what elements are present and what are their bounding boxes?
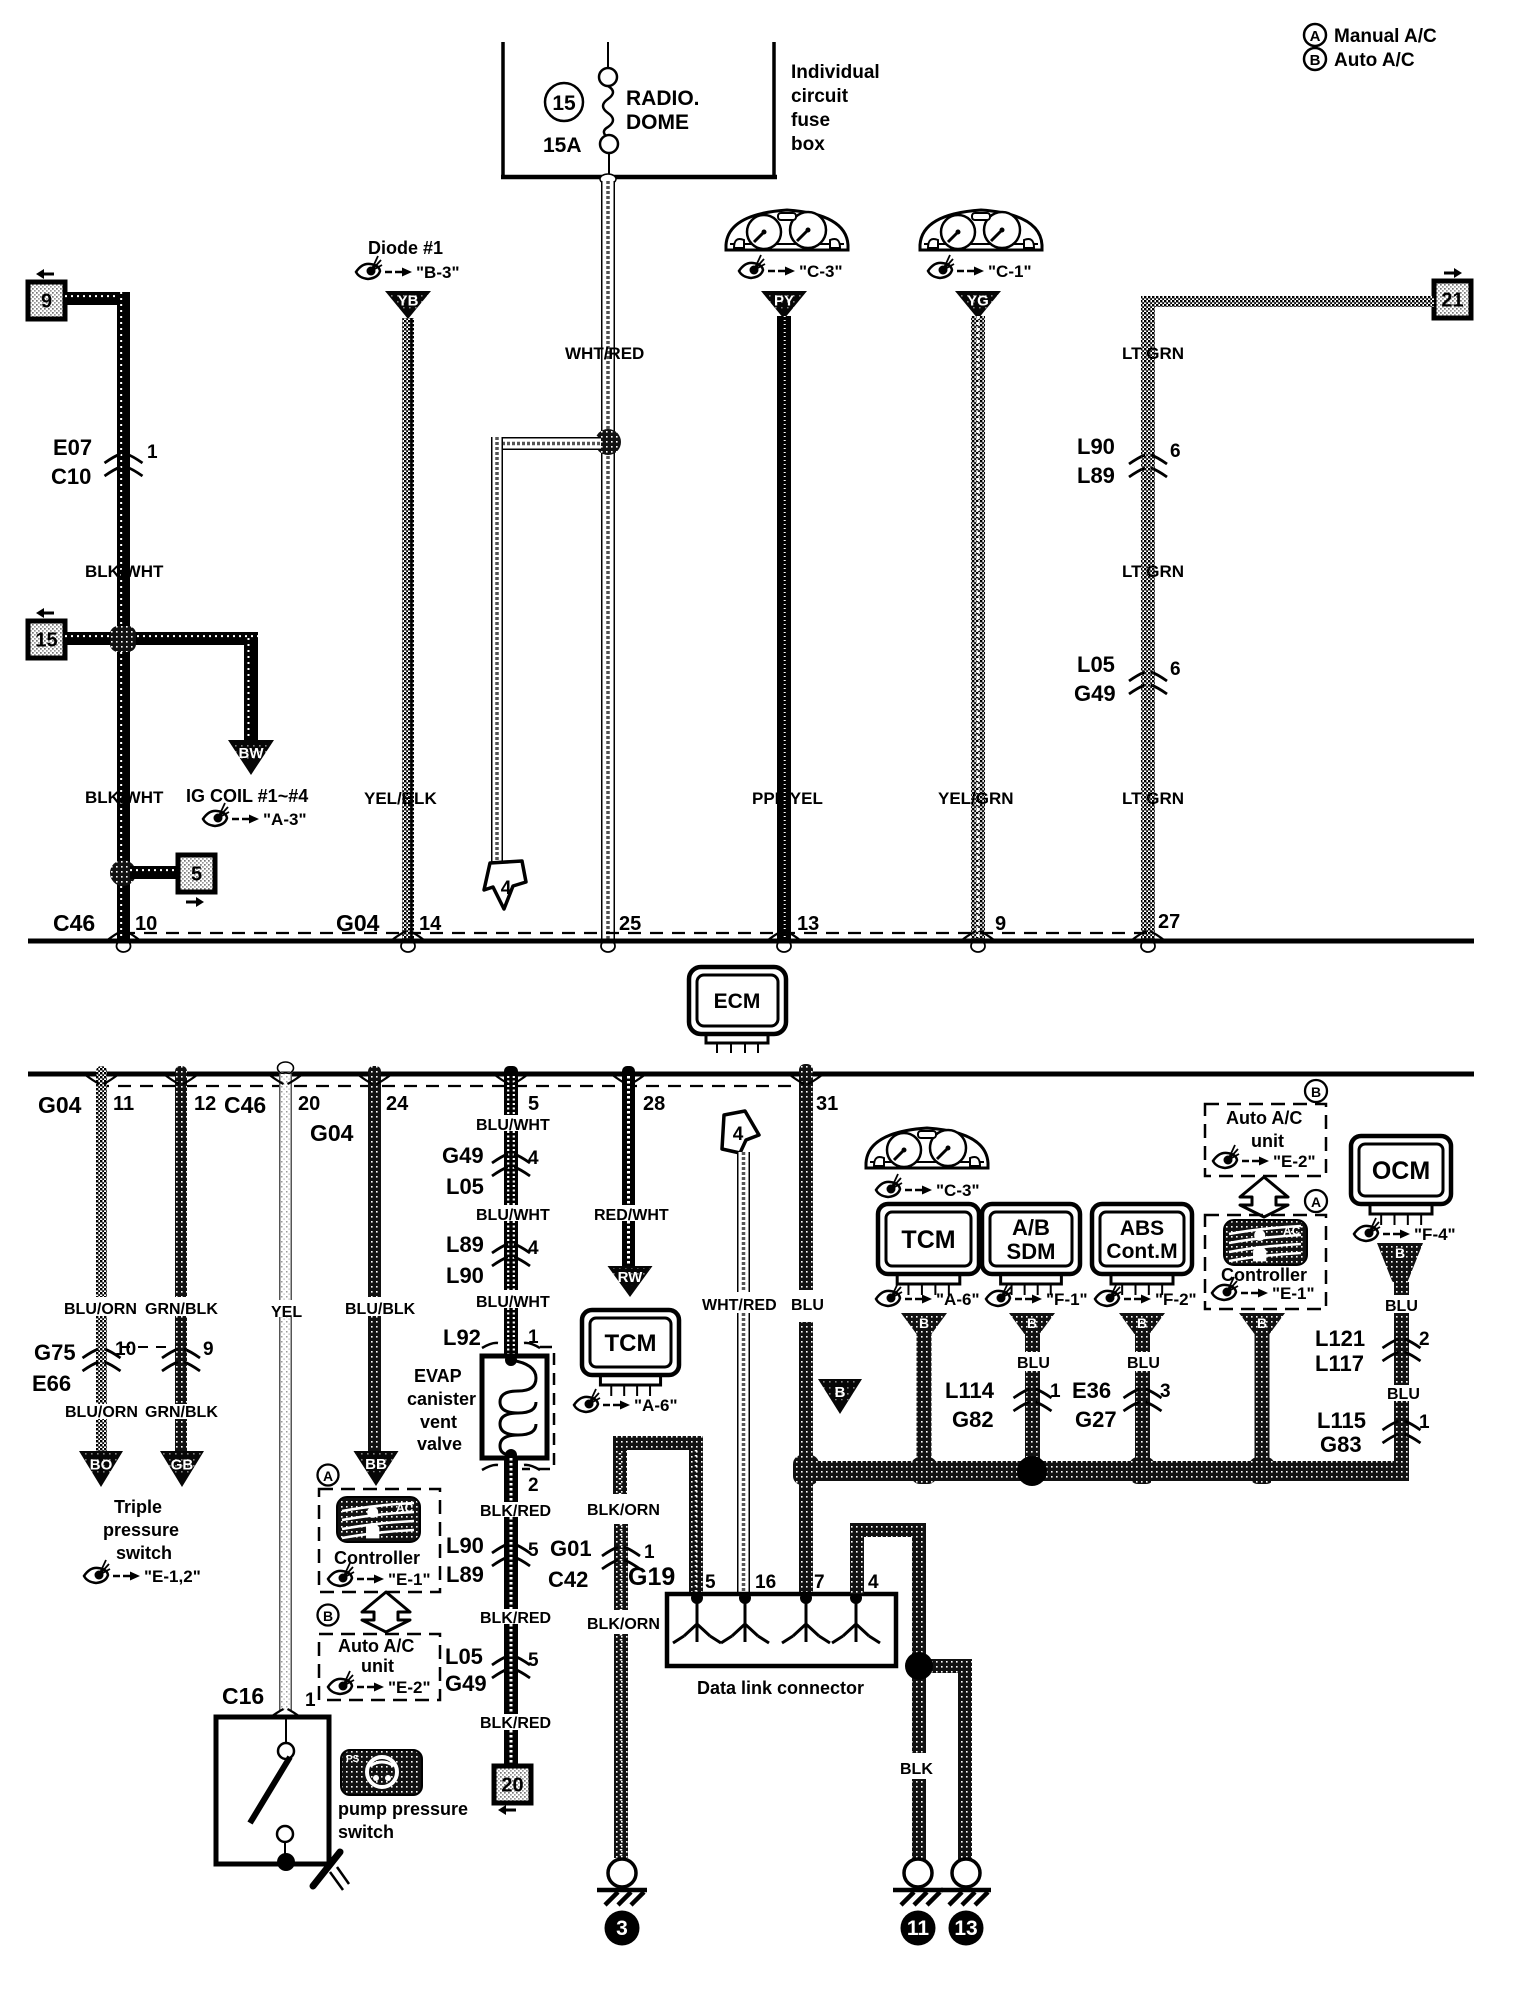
svg-text:L05: L05	[445, 1644, 483, 1669]
svg-text:BLU: BLU	[1387, 1386, 1420, 1403]
svg-text:14: 14	[419, 913, 442, 935]
svg-text:20: 20	[298, 1093, 320, 1115]
svg-text:Diode #1: Diode #1	[368, 238, 443, 258]
svg-text:TCM: TCM	[605, 1330, 657, 1357]
label LT GRN upper	[1122, 344, 1184, 363]
label C-1	[928, 255, 1032, 281]
connector 21	[1434, 268, 1471, 318]
svg-text:IG COIL #1~#4: IG COIL #1~#4	[186, 786, 308, 806]
label BLK/RED 1	[480, 1503, 551, 1520]
svg-text:11: 11	[907, 1917, 930, 1940]
svg-text:G49: G49	[442, 1143, 484, 1168]
svg-text:1: 1	[528, 1327, 539, 1348]
pin 9	[962, 913, 1006, 940]
instrument cluster icon C-3	[725, 210, 849, 250]
splice L05 G49 pin 6	[1074, 652, 1181, 706]
svg-text:BLU: BLU	[1017, 1355, 1050, 1372]
svg-text:2: 2	[1419, 1329, 1430, 1350]
funnel B under ABS	[1119, 1313, 1165, 1334]
svg-text:4: 4	[528, 1238, 539, 1259]
svg-text:BLK/WHT: BLK/WHT	[85, 788, 164, 807]
svg-text:B: B	[1027, 1315, 1037, 1331]
svg-text:WHT/RED: WHT/RED	[565, 344, 644, 363]
svg-text:11: 11	[113, 1093, 134, 1115]
EVAP canister vent valve dashed box	[522, 1347, 554, 1469]
svg-text:unit: unit	[361, 1656, 394, 1676]
svg-text:E36: E36	[1072, 1378, 1111, 1403]
svg-text:G49: G49	[445, 1671, 487, 1696]
svg-text:BLK/RED: BLK/RED	[480, 1610, 551, 1627]
ECM	[689, 967, 786, 1053]
svg-text:B: B	[1257, 1315, 1267, 1331]
label BLK	[900, 1761, 933, 1778]
wire B-net from controller to bus	[1255, 1334, 1270, 1461]
svg-text:1: 1	[1050, 1381, 1061, 1402]
svg-text:"E-1,2": "E-1,2"	[144, 1567, 201, 1586]
splice L115 G83 pin 1	[1317, 1408, 1430, 1457]
svg-text:RW: RW	[618, 1269, 644, 1286]
bus junction dots	[793, 1455, 1275, 1486]
svg-text:BLU/WHT: BLU/WHT	[476, 1117, 550, 1134]
instrument cluster icon C-3 (bottom)	[865, 1128, 989, 1168]
svg-text:6: 6	[1170, 441, 1181, 462]
svg-text:GRN/BLK: GRN/BLK	[145, 1404, 218, 1421]
svg-text:C46: C46	[224, 1092, 266, 1118]
svg-text:"C-3": "C-3"	[799, 262, 843, 281]
svg-text:circuit: circuit	[791, 86, 849, 107]
svg-text:"E-2": "E-2"	[388, 1678, 431, 1697]
svg-text:5: 5	[528, 1093, 539, 1115]
label F-2	[1095, 1283, 1197, 1309]
svg-text:Triple: Triple	[114, 1497, 162, 1517]
label G19	[628, 1563, 675, 1591]
OCM module	[1351, 1136, 1451, 1225]
svg-text:BLK: BLK	[900, 1761, 933, 1778]
svg-text:G83: G83	[1320, 1432, 1362, 1457]
label BLU/WHT 1	[476, 1117, 550, 1134]
svg-text:9: 9	[203, 1339, 214, 1360]
svg-text:L92: L92	[443, 1325, 481, 1350]
label GRN/BLK upper	[145, 1301, 218, 1318]
splice L90 L89 pin 6	[1077, 434, 1181, 488]
arrow RW to TCM	[608, 1266, 653, 1297]
funnel B under TCM	[901, 1313, 947, 1334]
label YEL	[271, 1304, 302, 1321]
svg-text:L05: L05	[446, 1174, 484, 1199]
svg-text:canister: canister	[407, 1389, 476, 1409]
svg-text:B: B	[1311, 1084, 1321, 1100]
svg-text:24: 24	[386, 1093, 409, 1115]
fuse F15 15A RADIO DOME	[543, 42, 700, 177]
splice G49 L05 pin 4	[442, 1143, 539, 1199]
splice G75 E66 pin 10	[32, 1339, 172, 1396]
ECM connector dashed line (bottom)	[96, 1085, 812, 1087]
circled B (top right)	[1305, 1080, 1327, 1102]
A/B alternative double arrow (right)	[1240, 1177, 1288, 1217]
pin 28	[613, 1075, 666, 1115]
A/C controller icon	[337, 1497, 420, 1542]
svg-text:Auto A/C: Auto A/C	[1226, 1108, 1302, 1128]
funnel B under controller	[1239, 1313, 1285, 1334]
label F-4	[1354, 1218, 1456, 1244]
connector 9	[28, 269, 65, 319]
instrument cluster icon C-1	[919, 210, 1043, 250]
splice L05 G49 pin 5 (lower)	[445, 1644, 539, 1696]
wire BLU/ORN ECM pin 11 to triple pressure switch	[96, 1066, 107, 1451]
pin 13	[768, 913, 819, 940]
wire RED/WHT ECM pin 28 to TCM	[622, 1066, 635, 1266]
svg-text:"F-2": "F-2"	[1155, 1290, 1197, 1309]
svg-text:pump pressure: pump pressure	[338, 1799, 468, 1819]
svg-text:27: 27	[1158, 911, 1180, 933]
svg-text:E66: E66	[32, 1371, 71, 1396]
svg-text:4: 4	[528, 1148, 539, 1169]
pin 11 label G04	[38, 1075, 134, 1118]
svg-text:G27: G27	[1075, 1407, 1117, 1432]
route arrow 4 (bottom)	[722, 1111, 759, 1153]
arrow BB	[354, 1451, 399, 1486]
svg-text:L05: L05	[1077, 652, 1115, 677]
label BLU/BLK	[345, 1301, 416, 1318]
svg-text:G75: G75	[34, 1340, 76, 1365]
pin 12	[165, 1075, 216, 1115]
label BLU (OCM lower)	[1387, 1386, 1420, 1403]
label BLU (OCM upper)	[1385, 1298, 1418, 1315]
pin 5	[495, 1075, 539, 1115]
svg-text:switch: switch	[338, 1822, 394, 1842]
svg-text:4: 4	[868, 1572, 879, 1593]
svg-text:L90: L90	[446, 1533, 484, 1558]
route arrow 4 (top)	[484, 861, 526, 909]
svg-text:9: 9	[41, 291, 52, 313]
TCM module (bus B)	[878, 1204, 979, 1295]
svg-text:LT GRN: LT GRN	[1122, 789, 1184, 808]
svg-text:Auto A/C: Auto A/C	[1334, 50, 1415, 71]
svg-text:AC: AC	[396, 1501, 414, 1515]
A/C controller icon (right)	[1224, 1220, 1307, 1265]
label BLU/ORN lower	[65, 1404, 138, 1421]
label BLU (SDM)	[1017, 1355, 1050, 1372]
splice L121 L117 pin 2	[1315, 1326, 1430, 1376]
svg-text:15: 15	[552, 92, 576, 115]
svg-text:5: 5	[191, 864, 202, 886]
pump pressure switch icon	[341, 1750, 422, 1795]
A/B alternative double arrow	[362, 1592, 410, 1632]
svg-text:RADIO.: RADIO.	[626, 87, 700, 110]
svg-text:"E-1": "E-1"	[388, 1570, 431, 1589]
splice at GRN/BLK pin 9	[162, 1339, 214, 1371]
ABS Cont.M module	[1092, 1204, 1192, 1295]
junction to connector 5	[110, 860, 178, 886]
splice L90 L89 pin 5 (lower)	[446, 1533, 539, 1587]
label BLK/ORN upper	[587, 1502, 660, 1519]
label BLU (ABS)	[1127, 1355, 1160, 1372]
wire YEL ECM pin 20 to compressor switch C16	[278, 1062, 294, 1710]
connector 5	[178, 855, 215, 907]
label triple pressure switch E-1,2	[84, 1497, 201, 1586]
svg-text:YG: YG	[967, 293, 989, 310]
svg-text:Auto A/C: Auto A/C	[338, 1636, 414, 1656]
pin 31	[790, 1075, 838, 1115]
compressor control switch C16 box	[216, 1717, 329, 1864]
label C-3 (bottom)	[876, 1174, 980, 1200]
label EVAP canister vent valve	[407, 1366, 476, 1454]
connector ellipses below bus 1	[117, 940, 1156, 952]
svg-text:EVAP: EVAP	[414, 1366, 462, 1386]
wire LT GRN from connector 21 to ECM pin 27	[1141, 296, 1434, 939]
label YEL/GRN	[938, 789, 1014, 808]
EVAP canister vent valve box and coil L92	[482, 1354, 547, 1461]
wire BLK/WHT from connector 9	[65, 292, 130, 939]
svg-text:YEL/BLK: YEL/BLK	[364, 789, 437, 808]
svg-text:B: B	[919, 1315, 929, 1331]
svg-text:unit: unit	[1251, 1131, 1284, 1151]
wire BLK/ORN to ground 3	[614, 1524, 628, 1858]
svg-text:L89: L89	[446, 1562, 484, 1587]
svg-text:C16: C16	[222, 1683, 264, 1709]
label IG COIL #1~#4 A-3	[186, 786, 308, 829]
svg-text:25: 25	[619, 913, 641, 935]
module ground bus (BLU)	[799, 1461, 1409, 1481]
svg-text:Individual: Individual	[791, 62, 880, 83]
wire YEL/BLK to ECM pin 14	[402, 318, 414, 939]
arrow YB from Diode	[385, 291, 431, 319]
label PPL/YEL	[752, 789, 823, 808]
label C16 pin 1	[222, 1683, 316, 1718]
label A-6 (left TCM)	[574, 1389, 678, 1415]
label WHT/RED	[565, 344, 644, 363]
svg-text:PY: PY	[774, 293, 794, 310]
svg-text:BLU/ORN: BLU/ORN	[64, 1301, 137, 1318]
svg-text:GRN/BLK: GRN/BLK	[145, 1301, 218, 1318]
switch contacts and blade inside C16	[250, 1717, 295, 1871]
svg-text:DOME: DOME	[626, 111, 689, 134]
Auto A/C unit dashed box (top right)	[1205, 1104, 1326, 1176]
splice L114 G82 pin 1	[945, 1378, 1061, 1432]
splice L89 L90 pin 4	[446, 1232, 539, 1288]
wire B-net from OCM to bus	[1394, 1282, 1409, 1461]
data link connector pins 5 16 7 4	[673, 1572, 880, 1643]
wire GRN/BLK ECM pin 12 to triple pressure switch	[175, 1066, 187, 1451]
funnel B under A/B SDM	[1009, 1313, 1055, 1334]
svg-text:A: A	[323, 1468, 333, 1484]
label BLU (pin31)	[791, 1297, 824, 1314]
svg-text:YEL/GRN: YEL/GRN	[938, 789, 1014, 808]
svg-text:Cont.M: Cont.M	[1106, 1240, 1177, 1263]
svg-text:YEL: YEL	[271, 1304, 302, 1321]
svg-text:4: 4	[733, 1124, 744, 1145]
svg-text:13: 13	[954, 1917, 977, 1940]
svg-text:G49: G49	[1074, 681, 1116, 706]
label BLK/WHT upper	[85, 562, 164, 581]
svg-text:L90: L90	[446, 1263, 484, 1288]
svg-text:"C-3": "C-3"	[936, 1181, 980, 1200]
Controller dashed box (A right)	[1205, 1215, 1326, 1309]
arrow BO	[79, 1451, 123, 1487]
svg-text:BLK/ORN: BLK/ORN	[587, 1502, 660, 1519]
label A-6 (TCM bus B)	[876, 1283, 980, 1309]
svg-text:"A-6": "A-6"	[634, 1396, 678, 1415]
svg-text:1: 1	[305, 1690, 316, 1711]
wire from connector 15 to IG coil branch	[65, 632, 258, 740]
wire BLU/BLK ECM pin 24 to A/C controller	[368, 1066, 381, 1451]
label BLK/RED 3	[480, 1715, 551, 1732]
label RED/WHT	[594, 1207, 669, 1224]
label BLU/WHT 3	[476, 1294, 550, 1311]
svg-text:13: 13	[797, 913, 819, 935]
svg-text:5: 5	[528, 1540, 539, 1561]
splice E36 G27 pin 3	[1072, 1378, 1171, 1432]
connector 20	[494, 1766, 531, 1815]
pin 25	[619, 913, 641, 935]
svg-text:BLK/WHT: BLK/WHT	[85, 562, 164, 581]
svg-text:C46: C46	[53, 910, 95, 936]
label C46 pin 10	[53, 910, 157, 940]
wire B-net from A/B SDM to bus	[1025, 1334, 1040, 1461]
svg-text:BLU: BLU	[1385, 1298, 1418, 1315]
svg-text:12: 12	[194, 1093, 216, 1115]
svg-text:valve: valve	[417, 1434, 462, 1454]
arrow YG from cluster	[955, 291, 1001, 319]
svg-text:15A: 15A	[543, 134, 582, 157]
svg-text:LT GRN: LT GRN	[1122, 562, 1184, 581]
svg-text:box: box	[791, 134, 825, 155]
svg-text:C10: C10	[51, 464, 91, 489]
svg-text:BLU/WHT: BLU/WHT	[476, 1294, 550, 1311]
funnel B under OCM	[1377, 1243, 1423, 1282]
svg-text:Controller: Controller	[334, 1548, 420, 1568]
svg-text:BW: BW	[239, 745, 265, 762]
label BLU/WHT 2	[476, 1207, 550, 1224]
svg-text:"A-6": "A-6"	[936, 1290, 980, 1309]
label BLK/RED 2	[480, 1610, 551, 1627]
svg-text:G19: G19	[628, 1563, 675, 1591]
ground 11	[893, 1859, 943, 1946]
svg-text:BLU: BLU	[791, 1297, 824, 1314]
junction at ground branch	[905, 1652, 933, 1680]
svg-text:ABS: ABS	[1120, 1217, 1164, 1240]
svg-text:L117: L117	[1315, 1351, 1364, 1376]
svg-text:E07: E07	[53, 435, 92, 460]
svg-text:pressure: pressure	[103, 1520, 179, 1540]
A/C controller dashed box (A)	[319, 1489, 440, 1592]
svg-text:PS: PS	[346, 1754, 360, 1765]
splice E07 C10 pin 1	[51, 435, 158, 489]
svg-text:"A-3": "A-3"	[263, 810, 307, 829]
svg-text:9: 9	[995, 913, 1006, 935]
svg-text:BLK/RED: BLK/RED	[480, 1503, 551, 1520]
svg-text:21: 21	[1441, 290, 1463, 312]
label Controller E-1 (right)	[1212, 1265, 1315, 1303]
svg-text:BLK/ORN: BLK/ORN	[587, 1616, 660, 1633]
svg-text:AC: AC	[1283, 1224, 1301, 1238]
svg-text:C42: C42	[548, 1567, 588, 1592]
label Controller E-1	[328, 1548, 431, 1589]
svg-text:B: B	[1395, 1245, 1405, 1261]
wire WHT/RED to data link connector pin 16	[737, 1152, 750, 1594]
Auto A/C unit dashed box (B)	[319, 1634, 440, 1700]
svg-text:L114: L114	[945, 1378, 995, 1403]
svg-text:"E-1": "E-1"	[1272, 1284, 1315, 1303]
svg-text:5: 5	[705, 1572, 716, 1593]
svg-text:6: 6	[1170, 659, 1181, 680]
ground 13	[941, 1859, 991, 1946]
splice G01 C42 pin 1	[548, 1536, 655, 1592]
svg-text:L115: L115	[1317, 1408, 1366, 1433]
pin 20 label C46	[224, 1075, 320, 1118]
svg-text:G82: G82	[952, 1407, 994, 1432]
svg-text:"C-1": "C-1"	[988, 262, 1032, 281]
ECM bus line (top)	[28, 939, 1474, 944]
circled A (manual)	[318, 1465, 339, 1486]
wire BLK/ORN link to data link connector pin 5	[613, 1436, 703, 1594]
net B marker triangle	[818, 1379, 862, 1414]
svg-text:L89: L89	[446, 1232, 484, 1257]
data link connector box	[667, 1594, 896, 1666]
svg-text:LT GRN: LT GRN	[1122, 344, 1184, 363]
svg-text:G01: G01	[550, 1536, 592, 1561]
svg-text:ECM: ECM	[714, 990, 761, 1013]
svg-text:A/B: A/B	[1012, 1215, 1050, 1240]
svg-text:"B-3": "B-3"	[416, 263, 460, 282]
label LT GRN lower	[1122, 789, 1184, 808]
ground 3	[597, 1859, 647, 1946]
svg-text:L121: L121	[1315, 1326, 1365, 1351]
svg-text:3: 3	[616, 1917, 628, 1940]
arrow PY from cluster	[761, 291, 807, 319]
svg-text:A: A	[1311, 1194, 1321, 1210]
wire branch to arrow 4 (WHT/RED)	[491, 437, 601, 862]
ECM bus line (bottom)	[28, 1072, 1474, 1077]
svg-text:TCM: TCM	[901, 1226, 955, 1254]
svg-text:31: 31	[816, 1093, 838, 1115]
svg-text:fuse: fuse	[791, 110, 830, 131]
wire PPL/YEL to ECM pin 13	[777, 316, 791, 939]
svg-text:5: 5	[528, 1650, 539, 1671]
svg-text:RED/WHT: RED/WHT	[594, 1207, 669, 1224]
svg-text:Data link connector: Data link connector	[697, 1678, 864, 1698]
individual circuit fuse box outline	[501, 42, 777, 178]
circled B (auto)	[318, 1605, 339, 1626]
wire WHT/RED from fuse to ECM pin 25	[600, 174, 616, 939]
svg-text:PPL/YEL: PPL/YEL	[752, 789, 823, 808]
label: Individual circuit fuse box	[791, 62, 880, 155]
svg-text:1: 1	[644, 1542, 655, 1563]
svg-text:A: A	[1310, 28, 1321, 45]
svg-text:7: 7	[814, 1572, 825, 1593]
svg-text:B: B	[1310, 52, 1321, 69]
svg-text:"F-4": "F-4"	[1414, 1225, 1456, 1244]
svg-text:GB: GB	[171, 1457, 194, 1474]
svg-text:10: 10	[135, 913, 157, 935]
label YEL/BLK	[364, 789, 437, 808]
legend: circled A Manual A/C	[1304, 24, 1437, 47]
svg-text:Controller: Controller	[1221, 1265, 1307, 1285]
svg-text:BLU/WHT: BLU/WHT	[476, 1207, 550, 1224]
label BLU/ORN upper	[64, 1301, 137, 1318]
svg-text:B: B	[835, 1384, 846, 1401]
svg-text:YB: YB	[398, 293, 419, 310]
label data link connector	[697, 1678, 864, 1698]
svg-text:16: 16	[755, 1572, 776, 1593]
wire YEL/GRN to ECM pin 9	[971, 316, 985, 939]
svg-text:10: 10	[115, 1339, 136, 1360]
label Diode #1 B-3	[356, 238, 460, 282]
ECM connector dashed line (top)	[122, 932, 1148, 934]
pin 24 label G04	[310, 1075, 409, 1146]
junction at connector 15 wire	[110, 626, 136, 652]
junction on WHT/RED wire	[595, 429, 621, 455]
